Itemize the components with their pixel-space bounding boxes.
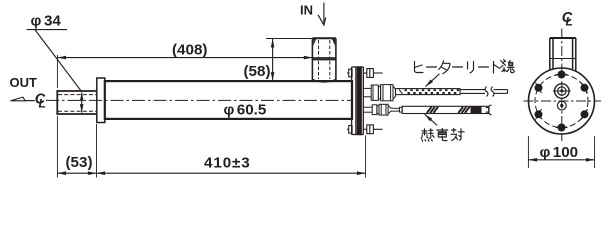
svg-text:(53): (53) <box>66 154 93 171</box>
svg-text:L: L <box>566 15 573 29</box>
svg-text:φ60.5: φ60.5 <box>224 102 267 119</box>
svg-text:(58): (58) <box>244 63 271 80</box>
svg-text:L: L <box>39 96 46 110</box>
svg-text:410±3: 410±3 <box>204 155 251 172</box>
svg-text:φ100: φ100 <box>540 144 579 161</box>
svg-text:(408): (408) <box>172 42 207 59</box>
svg-text:IN: IN <box>300 3 313 18</box>
svg-text:OUT: OUT <box>10 75 38 90</box>
svg-text:φ34: φ34 <box>31 13 62 30</box>
